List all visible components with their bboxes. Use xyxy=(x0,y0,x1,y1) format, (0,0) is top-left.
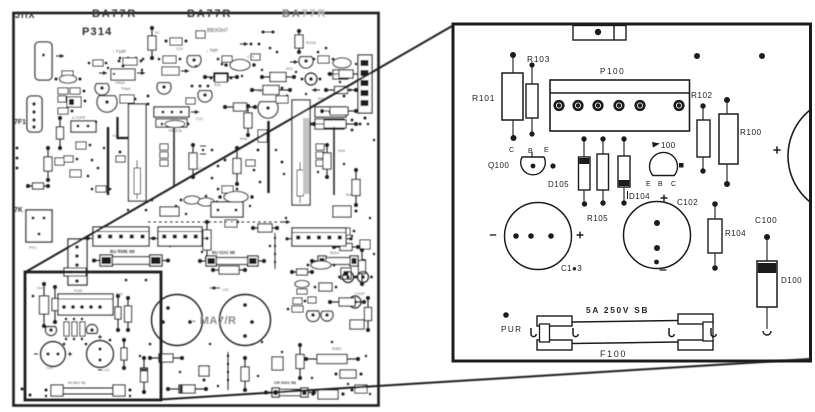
connector J2 xyxy=(27,96,42,132)
small part xyxy=(55,158,64,165)
gray bar xyxy=(303,118,310,194)
tall module right xyxy=(292,100,310,205)
transistor xyxy=(345,296,366,308)
tiny rect stack xyxy=(160,144,168,166)
small part xyxy=(165,38,188,45)
small rect xyxy=(314,283,338,291)
arrow right xyxy=(56,55,64,57)
resistor xyxy=(250,86,292,95)
capacitor oval xyxy=(307,261,336,269)
scatter via dots xyxy=(237,149,345,223)
scatter via dots bottom xyxy=(139,341,367,357)
transistor xyxy=(95,84,109,95)
svg-text:PUR: PUR xyxy=(501,325,523,334)
svg-text:R44: R44 xyxy=(338,149,345,153)
svg-text:BU 0101 5B: BU 0101 5B xyxy=(212,250,235,255)
connector SIP right xyxy=(358,55,372,120)
transistor xyxy=(299,57,313,68)
svg-text:R103: R103 xyxy=(527,54,550,64)
connector with dots xyxy=(71,121,96,132)
mini hooks xyxy=(45,395,131,397)
resistor xyxy=(44,146,52,182)
relay K1 xyxy=(35,42,52,80)
diode D104 xyxy=(618,136,630,205)
svg-text:BU 0101 5B: BU 0101 5B xyxy=(110,249,136,254)
resistor xyxy=(241,356,249,392)
resistor R100 xyxy=(719,97,738,187)
transistor xyxy=(87,324,98,333)
resistor xyxy=(189,143,197,179)
svg-text:C1●3: C1●3 xyxy=(561,264,582,273)
resistor xyxy=(26,183,50,189)
small parts corner xyxy=(351,385,368,393)
resistor xyxy=(328,70,364,78)
scatter via dots xyxy=(107,65,263,77)
resistor inside tall module xyxy=(134,160,141,199)
svg-text:C100: C100 xyxy=(755,216,777,225)
dotted trace xyxy=(227,352,229,390)
svg-text:7Ƙ: 7Ƙ xyxy=(14,207,23,214)
resistor xyxy=(320,107,358,115)
connector with pads right xyxy=(315,107,346,117)
via pads xyxy=(191,85,210,88)
left PCB board outline xyxy=(14,13,379,406)
fuse xyxy=(92,255,170,266)
svg-text:P314: P314 xyxy=(82,26,113,38)
diode D100 xyxy=(757,234,777,329)
callout zoom box xyxy=(25,272,161,400)
svg-text:R31: R31 xyxy=(214,83,221,87)
svg-text:- MA7/R: - MA7/R xyxy=(192,315,236,327)
resistor R101 xyxy=(502,52,523,141)
small parts right xyxy=(333,228,356,235)
svg-text:C: C xyxy=(509,147,514,154)
svg-text:CR 0001 5B: CR 0001 5B xyxy=(274,380,296,385)
small parts xyxy=(158,56,182,63)
scatter via dots xyxy=(169,217,375,255)
svg-text:BA77R: BA77R xyxy=(187,8,232,20)
small marks xyxy=(262,31,275,34)
svg-text:R104: R104 xyxy=(725,229,746,238)
resistor xyxy=(211,266,247,274)
svg-text:E: E xyxy=(646,181,651,188)
via dot xyxy=(759,53,765,59)
resistor xyxy=(312,120,358,128)
electrolytic capacitor xyxy=(152,295,203,346)
dotted link xyxy=(148,221,290,223)
electrolytic capacitor xyxy=(220,295,271,346)
resistor xyxy=(244,104,252,137)
svg-text:R100: R100 xyxy=(116,292,123,296)
resistor xyxy=(365,296,372,332)
via pads xyxy=(16,147,19,170)
svg-text:F100: F100 xyxy=(600,349,627,359)
diode D105 xyxy=(579,136,591,206)
svg-text:C103: C103 xyxy=(46,366,53,370)
rect right xyxy=(333,206,358,217)
transistor xyxy=(258,102,278,118)
fuse clip hook xyxy=(711,328,716,337)
mini plus minus xyxy=(34,335,102,370)
via dots xyxy=(224,149,284,164)
via pads xyxy=(21,388,32,397)
tiny parts xyxy=(116,151,125,162)
svg-text:TRө4: TRө4 xyxy=(121,87,130,91)
svg-text:C30: C30 xyxy=(222,288,228,292)
resistor xyxy=(260,73,296,82)
resistor xyxy=(203,73,239,81)
via pads xyxy=(119,57,145,61)
svg-text:C22: C22 xyxy=(196,117,203,121)
small part xyxy=(210,74,233,82)
capacitor xyxy=(62,71,73,76)
resistor xyxy=(323,143,331,179)
svg-text:BA77R: BA77R xyxy=(92,8,137,20)
label Q101 pointer xyxy=(652,142,660,148)
small part xyxy=(246,160,255,166)
connector PT1 xyxy=(26,210,52,242)
connector right xyxy=(306,119,344,129)
fuse xyxy=(310,256,366,266)
fuse xyxy=(264,388,316,397)
svg-text:B: B xyxy=(658,181,663,188)
resistor inside tall module xyxy=(297,162,304,203)
resistor xyxy=(57,116,64,150)
capacitor oval xyxy=(218,192,253,203)
capacitor oval TR03 xyxy=(161,121,190,128)
small parts cluster xyxy=(58,96,86,107)
resistor R105 xyxy=(597,136,609,205)
resistor xyxy=(324,87,358,94)
C103 plus xyxy=(577,232,584,239)
capacitor oval xyxy=(224,60,255,71)
small part xyxy=(251,54,260,60)
D100 cathode hook xyxy=(763,331,771,335)
via dot square xyxy=(679,163,684,168)
svg-text:C: C xyxy=(671,181,676,188)
via dot xyxy=(694,53,700,59)
small rect xyxy=(160,207,179,216)
svg-text:R101: R101 xyxy=(472,93,495,103)
transistor Q101 xyxy=(650,152,678,175)
small square xyxy=(341,268,351,279)
small tick marks xyxy=(200,146,206,154)
connector xyxy=(156,119,187,127)
small parts cluster xyxy=(293,297,316,304)
tall module xyxy=(129,104,147,201)
mini fuse xyxy=(45,385,132,396)
via dot xyxy=(550,163,555,168)
resistor xyxy=(359,248,366,286)
arrow xyxy=(290,61,298,63)
module with arrows xyxy=(99,65,145,80)
svg-text:Q100: Q100 xyxy=(488,161,509,170)
via dots right xyxy=(281,87,352,98)
mini resistor xyxy=(52,285,58,324)
resistor xyxy=(296,343,304,380)
svg-text:C102: C102 xyxy=(103,368,110,372)
callout line bottom xyxy=(161,359,810,400)
mini diodes xyxy=(64,318,85,340)
label D104 xyxy=(627,191,629,199)
via dots top xyxy=(240,42,260,46)
mini resistor xyxy=(125,296,132,332)
svg-text:↓ T8Ƥ: ↓ T8Ƥ xyxy=(206,48,219,53)
via dots xyxy=(269,47,328,54)
small part xyxy=(313,56,335,63)
svg-text:BA77R: BA77R xyxy=(282,8,327,20)
small part xyxy=(64,156,78,162)
small part xyxy=(276,96,288,103)
svg-text:P100: P100 xyxy=(74,289,82,293)
fuse clip hook xyxy=(573,328,578,337)
small square xyxy=(360,240,370,249)
svg-text:C12: C12 xyxy=(176,47,183,51)
capacitor oval xyxy=(55,75,82,83)
svg-text:R102: R102 xyxy=(691,91,713,100)
fuse xyxy=(198,256,266,266)
capacitor C102 xyxy=(624,202,691,271)
capacitor oval pair xyxy=(180,196,219,206)
connector strip xyxy=(86,227,155,246)
resistor R102 xyxy=(697,103,710,173)
via pads xyxy=(351,119,362,132)
transistor xyxy=(306,311,319,322)
dotted vertical trace xyxy=(274,233,276,269)
capacitor C103 xyxy=(505,203,572,270)
via dots xyxy=(145,195,208,212)
resistor xyxy=(290,269,314,275)
mini via dots xyxy=(32,279,152,346)
svg-text:100: 100 xyxy=(661,141,676,150)
svg-text:D105: D105 xyxy=(548,180,569,189)
small part xyxy=(186,98,195,104)
callout line top xyxy=(26,26,454,273)
svg-text:R301: R301 xyxy=(332,346,342,351)
resistor xyxy=(233,146,241,186)
connector strip xyxy=(151,227,208,246)
mini capacitor xyxy=(41,342,66,367)
top edge component xyxy=(573,26,626,41)
svg-text:5A 250V SB: 5A 250V SB xyxy=(586,306,649,315)
svg-text:R100: R100 xyxy=(740,128,762,137)
connector strip xyxy=(285,228,352,246)
scatter via dots xyxy=(295,63,375,141)
svg-text:D100: D100 xyxy=(781,276,802,285)
via dots xyxy=(87,159,100,178)
small component xyxy=(118,58,143,65)
small square xyxy=(199,366,209,382)
resistor xyxy=(304,355,360,364)
mini resistor xyxy=(40,282,49,328)
small parts cluster xyxy=(58,88,85,94)
vertical trace thick xyxy=(267,121,269,193)
svg-text:R7: R7 xyxy=(155,31,160,35)
svg-text:C31Ƥ: C31Ƥ xyxy=(355,292,365,296)
resistor xyxy=(203,220,211,260)
diode xyxy=(328,298,366,306)
svg-text:4 T1ƤƤ: 4 T1ƤƤ xyxy=(72,116,85,120)
transistor xyxy=(353,272,373,283)
resistor xyxy=(148,26,156,60)
svg-text:JΠX: JΠX xyxy=(15,10,36,20)
small part xyxy=(91,186,112,192)
mini capacitor xyxy=(87,341,114,368)
svg-text:5A 250V SB: 5A 250V SB xyxy=(68,381,85,385)
svg-text:R22: R22 xyxy=(286,67,293,71)
svg-text:BBX0H7: BBX0H7 xyxy=(207,28,228,34)
svg-text:TR04: TR04 xyxy=(115,80,126,85)
marks C30 xyxy=(210,287,228,293)
small part xyxy=(58,108,73,114)
connector J3 xyxy=(68,239,87,285)
mini resistor xyxy=(121,338,127,370)
transistor Q100 xyxy=(521,157,546,175)
scatter via dots bottom xyxy=(179,371,371,395)
L trace xyxy=(118,117,129,138)
resistor xyxy=(332,244,360,251)
connector with pads xyxy=(154,107,199,117)
mini resistor xyxy=(115,294,121,332)
small parts xyxy=(225,220,237,227)
transistor xyxy=(157,83,171,94)
mini terminal strip xyxy=(58,294,113,315)
svg-text:R105: R105 xyxy=(587,214,608,223)
resistor R103 xyxy=(526,62,538,136)
component xyxy=(311,390,344,399)
resistor xyxy=(148,354,184,362)
svg-text:TR03 B: TR03 B xyxy=(168,128,182,133)
Q100 base tick xyxy=(531,152,533,157)
resistor xyxy=(223,103,257,111)
svg-text:P100: P100 xyxy=(600,67,625,76)
small rect xyxy=(328,70,354,79)
small part xyxy=(258,130,267,142)
scatter via dots xyxy=(95,121,251,215)
svg-text:Tө2: Tө2 xyxy=(256,89,263,93)
vertical trace xyxy=(173,127,175,186)
transistor xyxy=(338,272,358,283)
terminal strip P100 xyxy=(550,80,690,131)
small rect xyxy=(350,320,364,329)
transistor xyxy=(97,96,117,112)
fuse clip hook xyxy=(531,328,536,337)
small parts xyxy=(120,95,136,103)
svg-text:D104: D104 xyxy=(629,192,650,201)
small part xyxy=(217,56,232,62)
small part xyxy=(70,170,81,177)
mini top component xyxy=(64,268,86,276)
svg-text:C18: C18 xyxy=(247,55,254,59)
mini diode xyxy=(141,356,148,394)
resistor xyxy=(295,29,303,54)
C103 minus xyxy=(490,234,496,236)
C100 plus xyxy=(773,146,780,153)
detail view border xyxy=(453,24,811,361)
svg-text:R318: R318 xyxy=(306,40,316,45)
small parts cluster xyxy=(287,306,303,312)
transistor xyxy=(301,73,322,85)
small part mid xyxy=(217,186,239,193)
arrow xyxy=(312,89,320,91)
fuse F100 holder xyxy=(537,314,713,350)
via dots mid xyxy=(211,149,262,184)
small part xyxy=(88,60,108,66)
capacitor oval xyxy=(333,58,351,68)
module rect xyxy=(211,202,243,217)
transistor xyxy=(321,311,333,321)
diode xyxy=(166,385,208,393)
via dots xyxy=(147,57,232,106)
via dot PUR xyxy=(503,312,509,318)
plus mark near D104 xyxy=(661,195,668,202)
svg-text:B: B xyxy=(528,148,533,155)
small part xyxy=(196,31,205,38)
small part xyxy=(335,370,363,378)
resistor R104 xyxy=(708,201,722,271)
svg-text:C102: C102 xyxy=(677,198,698,207)
capacitor oval xyxy=(295,281,309,295)
svg-text:R311: R311 xyxy=(330,250,340,255)
svg-text:R101: R101 xyxy=(37,286,44,290)
small rect xyxy=(272,357,283,370)
resistor xyxy=(251,224,279,232)
svg-text:PT1: PT1 xyxy=(29,245,37,250)
vertical trace thick xyxy=(107,127,109,195)
small parts xyxy=(162,67,189,75)
svg-text:↑ T18P: ↑ T18P xyxy=(112,49,126,54)
transistor xyxy=(46,327,57,336)
resistor xyxy=(352,168,360,207)
fuse clip hook xyxy=(669,328,674,337)
svg-text:R2ө: R2ө xyxy=(240,137,247,141)
vertical trace xyxy=(333,127,335,195)
transistor xyxy=(187,56,201,67)
tiny rect stack right xyxy=(316,144,324,166)
svg-text:E: E xyxy=(544,147,549,154)
small part xyxy=(76,142,91,149)
transistor xyxy=(198,91,212,102)
